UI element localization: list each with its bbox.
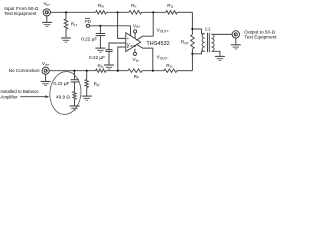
svg-text:VOUT+: VOUT+ <box>157 28 169 34</box>
svg-text:Amplifier: Amplifier <box>0 95 18 100</box>
svg-text:No Connection: No Connection <box>9 68 40 73</box>
svg-text:ROT: ROT <box>181 40 189 46</box>
svg-text:1:1: 1:1 <box>205 27 211 32</box>
svg-text:Vin−: Vin− <box>43 1 51 7</box>
svg-text:RF: RF <box>134 74 139 80</box>
svg-text:RG: RG <box>98 63 104 69</box>
svg-text:49.9 Ω: 49.9 Ω <box>56 94 70 99</box>
svg-text:RF: RF <box>131 3 136 9</box>
svg-text:RO: RO <box>166 63 172 69</box>
svg-text:THS4532: THS4532 <box>146 41 169 47</box>
svg-text:RO: RO <box>167 3 173 9</box>
svg-text:VS+: VS+ <box>133 23 140 29</box>
svg-text:Test Equipment: Test Equipment <box>244 35 277 40</box>
svg-text:VOUT−: VOUT− <box>157 55 169 61</box>
svg-text:RIT: RIT <box>94 82 100 88</box>
svg-text:0.22 µF: 0.22 µF <box>53 81 69 86</box>
svg-text:VS−: VS− <box>133 57 140 63</box>
svg-text:Installed to Balance: Installed to Balance <box>0 89 39 94</box>
svg-text:Vin+: Vin+ <box>42 61 50 67</box>
svg-text:0.22 µF: 0.22 µF <box>89 55 105 60</box>
svg-text:0.22 µF: 0.22 µF <box>81 37 97 42</box>
svg-text:Test Equipment: Test Equipment <box>4 11 37 16</box>
svg-text:PD: PD <box>85 19 91 24</box>
svg-text:RG: RG <box>98 3 104 9</box>
svg-text:RIT: RIT <box>71 21 77 27</box>
